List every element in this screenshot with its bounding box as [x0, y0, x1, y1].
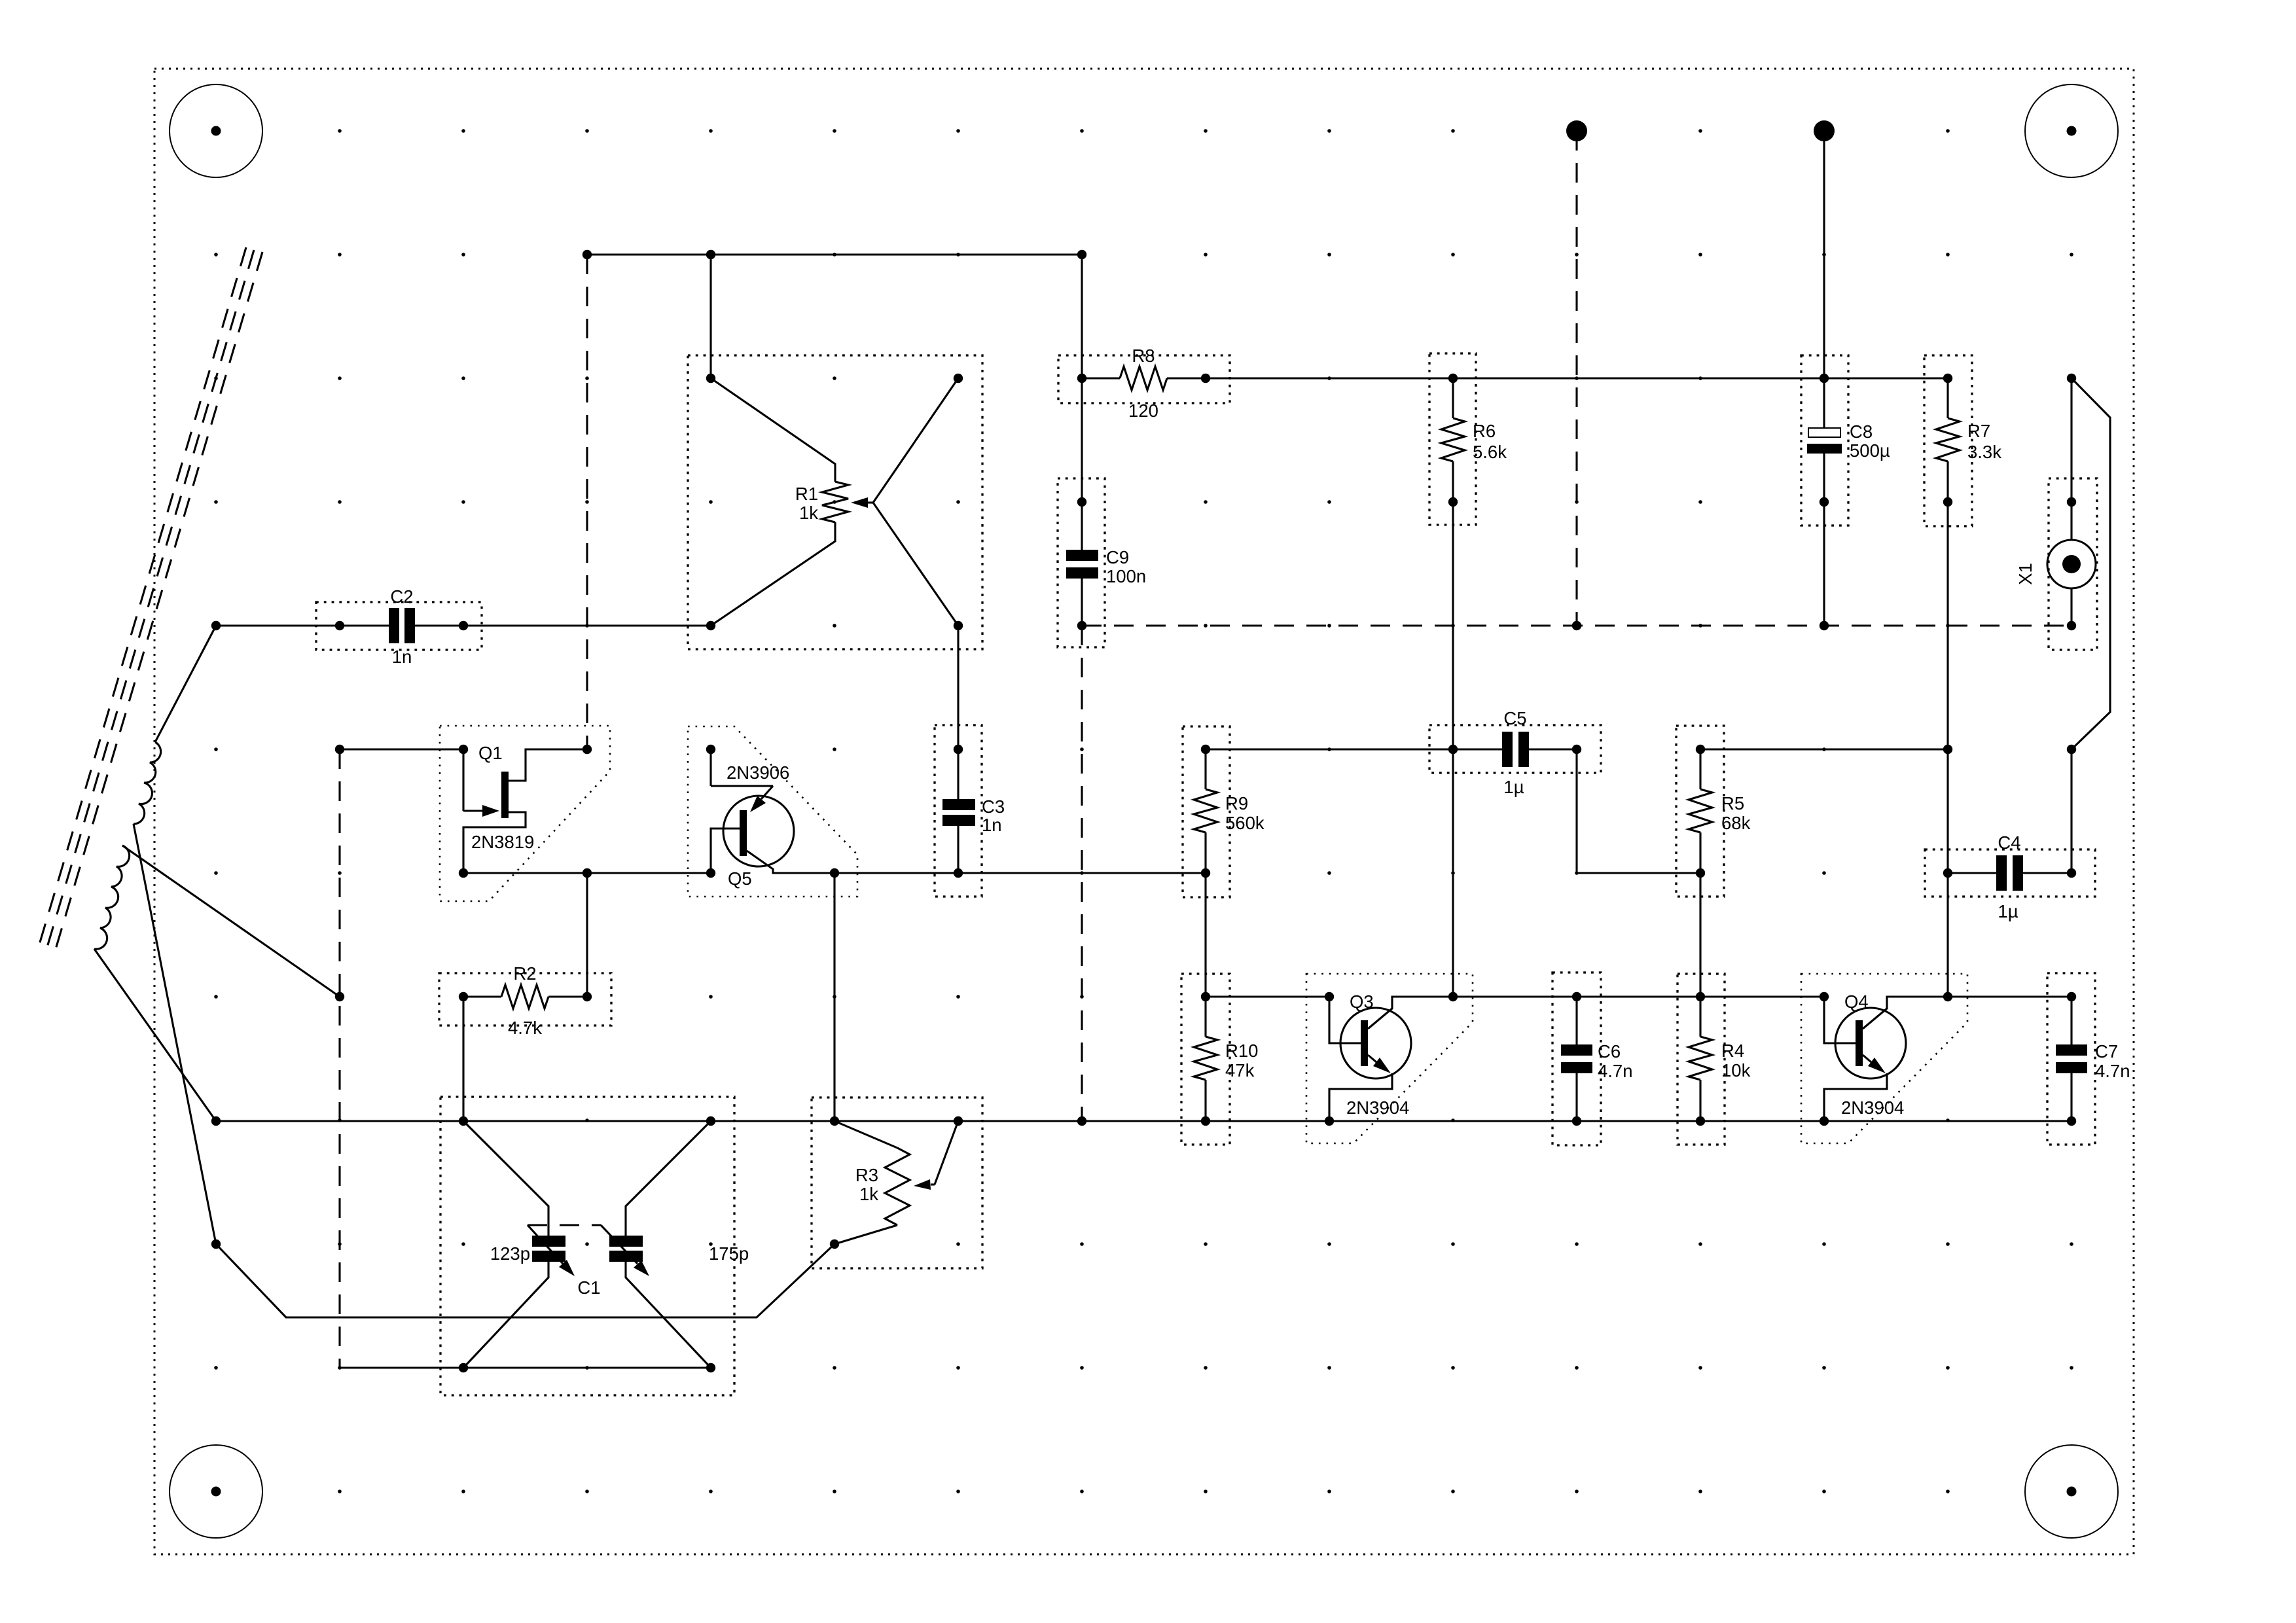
- wire: supply rail y=578 R8 to R7: [1206, 377, 1948, 379]
- wire: drop to R1 top-left pin: [709, 255, 711, 378]
- junction (2787,1713) Q4 emitter: [1820, 1116, 1829, 1126]
- wire: top distribution y=389: [587, 253, 1082, 255]
- wire: Q4 collector to C7 top: [1948, 995, 2072, 997]
- inductor L1 (tank winding): [134, 742, 161, 824]
- connector X1: [2015, 378, 2097, 650]
- junction (2976,1334) C4 pin: [1943, 868, 1952, 878]
- junction (330,956): [211, 621, 221, 630]
- junction (2787,578): [1820, 374, 1829, 383]
- dashed wire: battery minus column x=2409: [1575, 131, 1577, 626]
- wire: L1 bottom to node at (330,1901): [134, 824, 216, 1244]
- svg-text:R1: R1: [795, 484, 818, 504]
- junction (1086,1713) C1: [706, 1116, 715, 1126]
- svg-text:Q1: Q1: [478, 743, 503, 763]
- resistor R4 10k: [1677, 974, 1751, 1145]
- svg-text:C1: C1: [577, 1277, 600, 1298]
- wire: R9 top to C5 left y=1145: [1206, 748, 1453, 750]
- svg-text:C5: C5: [1503, 708, 1526, 728]
- potentiometer R3 1k: [812, 1097, 982, 1268]
- junction (897,389): [583, 250, 592, 259]
- junction (1086,389): [706, 250, 715, 259]
- junction (3165,1713) C7 pin: [2067, 1116, 2076, 1126]
- potentiometer R1 1k: [688, 355, 982, 649]
- wire: R10 top to Q3 base: [1206, 995, 1329, 997]
- wire: link node (330,1901) to R3 bottom (1275,1901): [216, 1244, 834, 1317]
- svg-text:3.3k: 3.3k: [1967, 442, 2001, 462]
- svg-text:1k: 1k: [799, 503, 818, 523]
- junction (1086,1334) Q5 base pin: [706, 868, 715, 878]
- svg-text:Q4: Q4: [1844, 991, 1869, 1012]
- resistor R5 68k: [1676, 726, 1751, 897]
- variable capacitor C1 (123p + 175p): [440, 1097, 749, 1395]
- wire: X1 bypass loop to output node: [2072, 378, 2110, 749]
- svg-text:R4: R4: [1721, 1041, 1744, 1061]
- svg-text:123p: 123p: [490, 1243, 530, 1264]
- svg-text:X1: X1: [2015, 563, 2036, 585]
- perfboard grid dots: [214, 129, 2073, 1493]
- transistor Q1 2N3819 JFET: [340, 726, 610, 901]
- junction (2976,578) R7 pin: [1943, 374, 1952, 383]
- wire: C1 rotor bus y=2090: [340, 1366, 711, 1368]
- dashed wire: battery minus rail y=956: [1082, 624, 2072, 626]
- wire: C5 right down and over to R5 bottom: [1577, 749, 1700, 873]
- wire: Q1 source row y=1334 to Q5 base: [463, 872, 711, 874]
- junction (1464,1145) C3 pin: [954, 745, 963, 754]
- svg-text:C2: C2: [390, 586, 413, 607]
- wire: collector row y=1523 to Q4 base: [1453, 995, 1824, 997]
- junction (2976,767) R7 pin: [1943, 497, 1952, 507]
- junction (2787,767) C8 pin: [1820, 497, 1829, 507]
- junction (1653,578) R8 pin: [1077, 374, 1086, 383]
- svg-text:1k: 1k: [859, 1184, 878, 1204]
- svg-text:1n: 1n: [392, 647, 412, 667]
- battery terminal dot (2787,200): [1814, 120, 1835, 141]
- svg-text:120: 120: [1128, 401, 1158, 421]
- resistor R9 560k: [1183, 726, 1265, 897]
- junction (1653,389): [1077, 250, 1086, 259]
- junction (1842,1145) R9 pin: [1201, 745, 1210, 754]
- svg-text:2N3906: 2N3906: [726, 762, 789, 783]
- svg-text:500µ: 500µ: [1850, 440, 1890, 461]
- wire: R5 top to output node x=2976: [1700, 748, 1948, 750]
- capacitor C8 500u electrolytic: [1801, 355, 1890, 626]
- junction (1653,956) C9 pin: [1077, 621, 1086, 630]
- junction (897,1334): [583, 868, 592, 878]
- junction (1275,1901) R3 pin: [830, 1240, 839, 1249]
- mounting hole bottom-right: [2025, 1445, 2118, 1538]
- svg-text:C9: C9: [1106, 547, 1129, 567]
- junction (897,1523) R2 pin: [583, 992, 592, 1001]
- junction (2220,1145) C5 pin: [1448, 745, 1458, 754]
- svg-text:C7: C7: [2095, 1041, 2118, 1061]
- junction (708,2090) C1 pin: [459, 1363, 468, 1372]
- junction (2031,1523) Q3 base pin: [1325, 992, 1334, 1001]
- capacitor C9 100n: [1058, 478, 1146, 647]
- svg-text:Q5: Q5: [728, 868, 752, 889]
- junction (3165,767) X1 pin: [2067, 497, 2076, 507]
- junction (2598,1334) R5 pin: [1696, 868, 1705, 878]
- junction (1464,956) R1 pin: [954, 621, 963, 630]
- junction (1086,2090) C1 pin: [706, 1363, 715, 1372]
- junction (708,1713) R2/C1: [459, 1116, 468, 1126]
- svg-text:R2: R2: [513, 963, 536, 984]
- svg-text:R7: R7: [1967, 421, 1990, 441]
- wire: R5 bottom down to R4 top: [1699, 873, 1701, 997]
- svg-text:1µ: 1µ: [1503, 777, 1524, 797]
- wire: drop to R2 right pin: [586, 873, 588, 997]
- wire: R9 bottom to R10 top: [1204, 873, 1206, 997]
- junction (2598,1713) R4 pin: [1696, 1116, 1705, 1126]
- transistor Q5 2N3906 PNP: [688, 726, 857, 897]
- junction (2598,1145) R5 pin: [1696, 745, 1705, 754]
- svg-text:C3: C3: [982, 796, 1005, 817]
- junction (708,1334) Q1 source pin: [459, 868, 468, 878]
- svg-text:R5: R5: [1721, 793, 1744, 813]
- junction (1653,1713) C9 dashed: [1077, 1116, 1086, 1126]
- junction (2409,1523) C6 pin: [1572, 992, 1581, 1001]
- antenna rod (triple dashed line): [38, 247, 262, 954]
- svg-text:R8: R8: [1132, 346, 1155, 366]
- board outline (dotted page border): [154, 69, 2134, 1554]
- svg-text:Q3: Q3: [1350, 991, 1374, 1012]
- svg-text:1n: 1n: [982, 815, 1002, 835]
- svg-text:2N3819: 2N3819: [471, 832, 534, 852]
- svg-text:4.7n: 4.7n: [1598, 1061, 1633, 1081]
- svg-text:100n: 100n: [1106, 566, 1146, 586]
- junction (1275,1334) Q5 collector pin: [830, 868, 839, 878]
- junction (1464,1334) C3 pin: [954, 868, 963, 878]
- junction (1086,578) R1 pin: [706, 374, 715, 383]
- svg-text:4.7k: 4.7k: [508, 1018, 542, 1038]
- junction (708,956) C2 pin: [459, 621, 468, 630]
- junction (2409,1145) C5 pin: [1572, 745, 1581, 754]
- svg-text:2N3904: 2N3904: [1346, 1097, 1409, 1118]
- battery terminal dot (2409,200): [1566, 120, 1587, 141]
- svg-text:R6: R6: [1473, 421, 1496, 441]
- junction (3165,578): [2067, 374, 2076, 383]
- dashed wire: Q1 gate column x=519: [338, 749, 340, 1368]
- junction (2220,1523) Q3 collector node: [1448, 992, 1458, 1001]
- junction (2598,1523) R4 pin: [1696, 992, 1705, 1001]
- junction (519,1523) L2 tap on gate line: [335, 992, 344, 1001]
- svg-text:10k: 10k: [1721, 1060, 1751, 1080]
- junction (1842,578) R8 pin: [1201, 374, 1210, 383]
- junction (2220,767) R6 pin: [1448, 497, 1458, 507]
- junction (2976,1523) Q4 collector node: [1943, 992, 1952, 1001]
- junction (2787,956): [1820, 621, 1829, 630]
- svg-text:1µ: 1µ: [1998, 901, 2018, 921]
- capacitor C3 1n: [935, 626, 1005, 897]
- junction (1464,578) R1 pin: [954, 374, 963, 383]
- junction (1842,1713) R10 pin: [1201, 1116, 1210, 1126]
- junction (1842,1523) R10 pin: [1201, 992, 1210, 1001]
- svg-text:C6: C6: [1598, 1041, 1621, 1061]
- capacitor C4 1u: [1925, 832, 2095, 921]
- wire: main ground rail y=1713: [216, 1120, 2072, 1122]
- junction (3165,1334) C4 pin: [2067, 868, 2076, 878]
- capacitor C6 4.7n: [1552, 972, 1633, 1145]
- inductor L2 (coupling winding): [94, 846, 130, 949]
- wire: battery plus down to C8: [1823, 131, 1825, 428]
- transistor Q4 2N3904 NPN: [1801, 974, 1967, 1143]
- junction (3165,1523) C7 pin: [2067, 992, 2076, 1001]
- wire: R6 bottom down to Q3 collector node x=2220: [1452, 502, 1454, 997]
- resistor R10 47k: [1181, 974, 1258, 1145]
- resistor R6 5.6k: [1429, 353, 1507, 525]
- wire: L2 bottom to ground rail left end: [94, 949, 216, 1121]
- junction (330,1713) rail left end: [211, 1116, 221, 1126]
- wire: C2 left to coil L1 top: [155, 626, 216, 742]
- wire: x=1653 down to C9 top: [1081, 255, 1083, 502]
- dashed wire: Q1 drain column x=897: [586, 255, 588, 749]
- wire: Q5 collector row y=1334 to R9: [834, 872, 1206, 874]
- junction (3165,956) X1 pin: [2067, 621, 2076, 630]
- dashed wire: C9 to ground rail x=1653: [1081, 626, 1083, 1121]
- wire: L2 top to dashed gate line junction: [122, 846, 340, 997]
- mounting hole top-left: [170, 84, 262, 177]
- mounting hole bottom-left: [170, 1445, 262, 1538]
- svg-text:2N3904: 2N3904: [1841, 1097, 1904, 1118]
- wire: R2 left down to ground rail: [462, 997, 464, 1121]
- svg-text:560k: 560k: [1225, 813, 1265, 833]
- junction (330,1901): [211, 1240, 221, 1249]
- junction (708,1523) R2 pin: [459, 992, 468, 1001]
- junction (2976,1145): [1943, 745, 1952, 754]
- junction (1086,956): [706, 621, 715, 630]
- svg-text:R10: R10: [1225, 1041, 1258, 1061]
- svg-text:175p: 175p: [709, 1243, 749, 1264]
- svg-text:C4: C4: [1998, 832, 2020, 853]
- junction (2031,1713) Q3 emitter: [1325, 1116, 1334, 1126]
- junction (3165,1145): [2067, 745, 2076, 754]
- junction (2787,1523) Q4 base pin: [1820, 992, 1829, 1001]
- transistor Q3 2N3904 NPN: [1306, 974, 1473, 1143]
- svg-text:R9: R9: [1225, 793, 1248, 813]
- junction (519,956) C2 pin: [335, 621, 344, 630]
- junction (1842,1334) R9 pin: [1201, 868, 1210, 878]
- resistor R7 3.3k: [1924, 355, 2001, 526]
- svg-text:4.7n: 4.7n: [2095, 1061, 2130, 1081]
- wire: Q5 collector down to R3 top: [833, 873, 835, 1121]
- junction (2409,1713) C6 pin: [1572, 1116, 1581, 1126]
- wire: R7 bottom down x=2976 to Q4 collector node: [1946, 502, 1948, 997]
- junction (2409,956): [1572, 621, 1581, 630]
- junction (1464,1713) R3 wiper: [954, 1116, 963, 1126]
- svg-text:68k: 68k: [1721, 813, 1751, 833]
- junction (519,1145) Q1 gate wire end: [335, 745, 344, 754]
- capacitor C5 1u: [1429, 708, 1601, 797]
- junction (708,1145) Q1 gate pin: [459, 745, 468, 754]
- junction (897,1145) Q1 drain pin: [583, 745, 592, 754]
- svg-text:R3: R3: [855, 1165, 878, 1185]
- resistor R2 4.7k: [439, 963, 611, 1038]
- svg-text:47k: 47k: [1225, 1060, 1255, 1080]
- mounting hole top-right: [2025, 84, 2118, 177]
- junction (1086,1145) Q5 emitter pin: [706, 745, 715, 754]
- resistor R8 120: [1058, 346, 1230, 421]
- junction (1275,1713) R3 top pin: [830, 1116, 839, 1126]
- svg-text:C8: C8: [1850, 421, 1873, 442]
- capacitor C7 4.7n: [2047, 973, 2130, 1145]
- junction (1653,767) C9 pin: [1077, 497, 1086, 507]
- svg-text:5.6k: 5.6k: [1473, 442, 1507, 462]
- capacitor C2 1n: [216, 586, 711, 667]
- junction (2220,578) R6 pin: [1448, 374, 1458, 383]
